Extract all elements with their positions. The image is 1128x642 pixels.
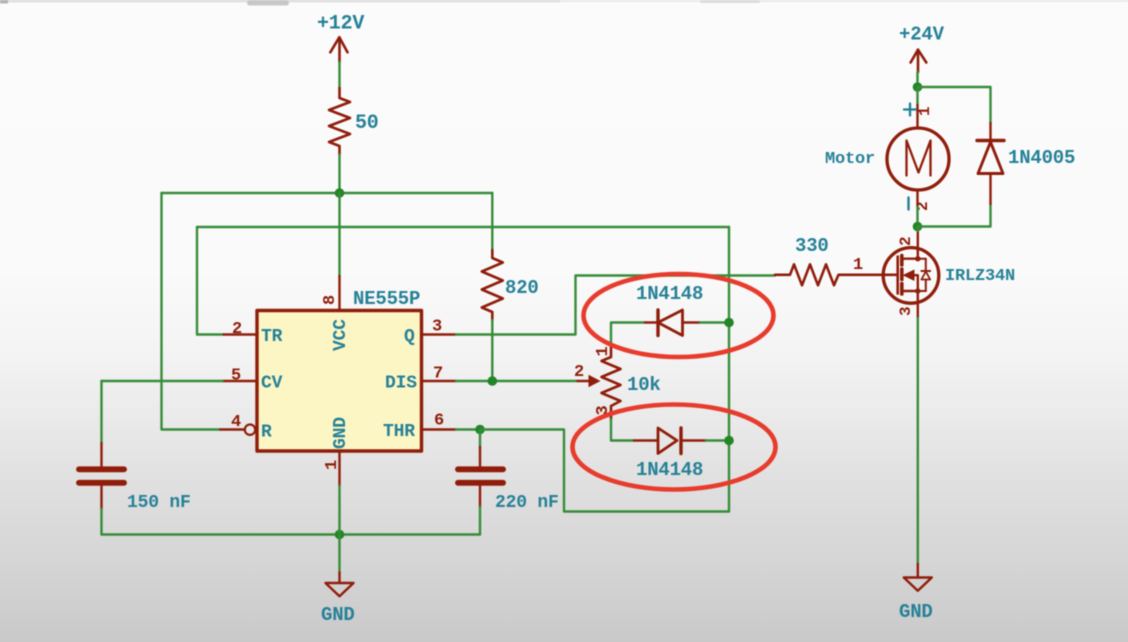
svg-text:1N4005: 1N4005: [1008, 147, 1075, 169]
annotation ellipse bottom: [573, 405, 776, 490]
motor pin + mark: [904, 104, 916, 116]
svg-text:6: 6: [434, 412, 444, 431]
svg-text:330: 330: [795, 235, 829, 257]
wire pot bottom to diode D2: [611, 419, 634, 441]
wire horizontal rail y=193: [162, 192, 493, 194]
svg-text:150 nF: 150 nF: [127, 493, 191, 513]
pin 1 GND stub: [338, 451, 340, 486]
motor M1 pin 2 stub: [916, 190, 918, 207]
pin 2 TR stub: [224, 333, 257, 335]
svg-text:GND: GND: [331, 417, 351, 449]
pin 3 Q stub: [422, 333, 457, 335]
svg-text:3: 3: [897, 307, 915, 316]
power flag +12V arrow: [330, 37, 347, 62]
junction node VCC rail: [335, 188, 345, 198]
wire R50 to VCC rail: [338, 155, 340, 194]
svg-text:2: 2: [897, 237, 915, 246]
svg-text:VCC: VCC: [331, 319, 351, 351]
transistor Q1 IRLZ34N: [883, 231, 939, 318]
pin 6 THR stub: [422, 428, 457, 430]
svg-text:7: 7: [433, 365, 443, 384]
mosfet pin 2 stub: [917, 231, 919, 248]
diode D1 1N4148 (cathode left): [645, 321, 658, 323]
wire left drop to R pin: [162, 193, 221, 430]
pin 7 DIS stub: [422, 380, 457, 382]
diode D3 1N4005: [989, 123, 991, 141]
pin 5 CV stub: [223, 380, 258, 382]
svg-text:3: 3: [432, 318, 442, 337]
top edge video artifact strip: [0, 0, 560, 2]
diode D2 1N4148 (cathode right): [634, 439, 658, 441]
svg-text:2: 2: [232, 320, 242, 339]
annotation ellipse top: [584, 274, 774, 357]
wire +24V to motor: [916, 87, 918, 105]
junction node GND bottom: [335, 530, 345, 540]
junction node drain: [913, 222, 923, 232]
wire bottom GND run: [102, 533, 481, 535]
svg-text:4: 4: [231, 413, 241, 432]
mosfet source path: [902, 291, 918, 304]
pin 4 R stub: [220, 428, 244, 430]
junction node D2: [724, 436, 734, 446]
wire +24V to D3: [918, 87, 991, 123]
svg-text:1: 1: [853, 256, 863, 275]
wire horizontal rail y=227 (TR net): [197, 226, 729, 228]
wire +12V to R 50: [338, 62, 340, 88]
wire rail down to VCC pin: [338, 193, 340, 276]
motor M1 body: [887, 128, 949, 190]
svg-text:DIS: DIS: [385, 374, 417, 394]
capacitor C1 150nF plates: [79, 466, 124, 472]
wire 820 to DIS net: [491, 320, 493, 381]
mosfet channel bars: [900, 256, 904, 266]
capacitor C2 220nF plates: [458, 466, 503, 472]
wire TR drop: [197, 227, 224, 335]
wire CV net: [102, 380, 223, 382]
junction node +24V: [913, 82, 923, 92]
junction node DIS/820: [488, 376, 498, 386]
mosfet drain path: [902, 248, 918, 259]
svg-text:5: 5: [231, 367, 241, 386]
svg-text:50: 50: [355, 112, 379, 135]
svg-text:820: 820: [505, 277, 539, 299]
svg-text:1: 1: [323, 460, 342, 470]
potentiometer RV1 track: [602, 344, 621, 419]
wire THR to right: [456, 428, 480, 430]
mosfet source arrow: [904, 270, 914, 280]
pin 8 VCC stub: [338, 276, 340, 311]
svg-text:1N4148: 1N4148: [636, 283, 703, 305]
mosfet body circle: [883, 248, 939, 304]
svg-text:1: 1: [594, 346, 613, 356]
svg-text:Motor: Motor: [825, 150, 875, 169]
svg-text:1N4148: 1N4148: [636, 459, 703, 481]
svg-text:220 nF: 220 nF: [495, 493, 559, 513]
svg-text:8: 8: [321, 295, 340, 305]
wire to GND symbol: [338, 535, 340, 573]
potentiometer wiper arrow: [578, 380, 590, 382]
ground symbol left: [326, 583, 354, 596]
wire THR to diode net: [480, 430, 729, 512]
wire IC GND pin to bottom run: [338, 486, 340, 535]
capacitor C1 bottom stem: [100, 486, 102, 509]
wire drain node to D3: [918, 204, 991, 227]
wire mosfet source to GND: [917, 318, 919, 564]
resistor R 820: [482, 250, 503, 320]
ground symbol right: [904, 578, 932, 591]
mosfet gate bar: [896, 257, 899, 294]
wire 820 drop from rail: [491, 193, 493, 250]
motor M glyph: [907, 141, 931, 176]
svg-text:+24V: +24V: [899, 24, 945, 46]
junction node D1: [724, 318, 734, 328]
svg-text:+12V: +12V: [317, 13, 364, 36]
power flag +24V arrow: [911, 50, 927, 72]
svg-text:1: 1: [916, 107, 934, 116]
svg-text:Q: Q: [404, 327, 415, 347]
svg-text:GND: GND: [321, 604, 355, 626]
svg-text:10k: 10k: [627, 374, 661, 396]
junction node THR/C2: [475, 425, 485, 435]
svg-text:THR: THR: [383, 422, 415, 442]
wire pot top to diode D1: [611, 323, 645, 345]
mosfet internal dots: [915, 256, 920, 261]
capacitor C1 150nF top stem: [100, 443, 102, 466]
pin 4 inversion bubble: [245, 425, 255, 435]
wire diode net vertical x=729: [728, 227, 730, 512]
svg-text:NE555P: NE555P: [353, 288, 420, 310]
op IC U1 NE555P body: [257, 311, 422, 452]
wire DIS to pot wiper: [456, 380, 578, 382]
wire Q to gate net: [456, 276, 775, 335]
capacitor C2 220nF top stem: [479, 430, 481, 448]
resistor R 330: [775, 264, 898, 285]
svg-text:2: 2: [574, 363, 584, 382]
svg-text:IRLZ34N: IRLZ34N: [945, 267, 1015, 286]
resistor 50: [329, 88, 350, 155]
svg-text:GND: GND: [899, 601, 933, 623]
mosfet pin 3 stub: [917, 304, 919, 319]
svg-text:R: R: [261, 423, 272, 443]
capacitor C2 bottom stem: [479, 486, 481, 507]
svg-text:TR: TR: [261, 327, 283, 347]
mosfet body diode: [925, 259, 927, 271]
wire drain node to mosfet: [917, 227, 919, 232]
wire motor to drain node: [916, 207, 918, 227]
motor M1 pin 1 stub: [916, 105, 918, 128]
svg-text:CV: CV: [261, 374, 283, 394]
motor pin - mark: [907, 198, 909, 210]
